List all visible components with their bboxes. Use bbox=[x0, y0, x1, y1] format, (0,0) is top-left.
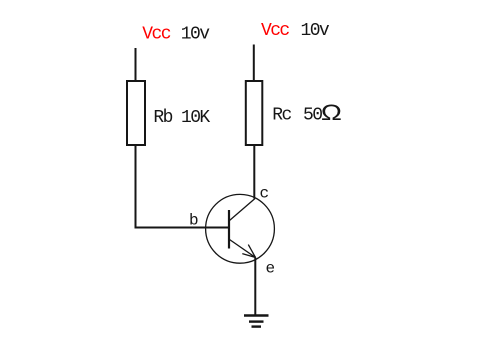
svg-text:c: c bbox=[260, 185, 270, 203]
svg-text:Rc: Rc bbox=[272, 106, 291, 126]
wire Vcc to Rc bbox=[253, 45, 255, 82]
svg-text:Vcc: Vcc bbox=[261, 21, 289, 41]
svg-text:10v: 10v bbox=[301, 21, 330, 41]
svg-text:Ω: Ω bbox=[321, 101, 342, 125]
wire Rc bottom to collector bbox=[253, 146, 255, 199]
svg-text:Vcc: Vcc bbox=[142, 25, 170, 45]
label Rc 50ohm bbox=[272, 101, 342, 126]
label Vcc 10v (left) bbox=[142, 25, 210, 45]
resistor Rb bbox=[127, 81, 145, 145]
svg-text:50: 50 bbox=[303, 106, 322, 126]
transistor Q1 bbox=[206, 194, 275, 263]
label Vcc 10v (right) bbox=[261, 21, 330, 41]
svg-text:e: e bbox=[266, 260, 276, 278]
wire Vcc to Rb bbox=[135, 48, 137, 81]
ground bbox=[244, 316, 269, 327]
svg-text:10v: 10v bbox=[181, 25, 210, 45]
svg-text:b: b bbox=[189, 212, 199, 230]
wire emitter to ground bbox=[254, 258, 256, 316]
resistor Rc bbox=[246, 81, 262, 145]
svg-text:Rb 10K: Rb 10K bbox=[153, 108, 210, 128]
wire Rb bottom to base node bbox=[136, 146, 230, 228]
